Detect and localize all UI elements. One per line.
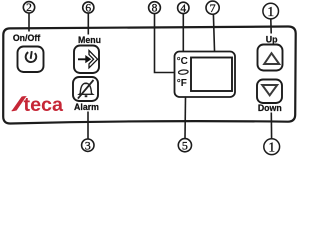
callout circle 4 (178, 2, 189, 15)
callout circle 1 top (Up) (263, 3, 279, 19)
svg-text:8: 8 (152, 3, 158, 15)
Menu button (74, 46, 99, 74)
callout circle 8 (149, 2, 161, 15)
bell icon with slash (78, 80, 94, 99)
callout circle 5 (178, 139, 191, 153)
svg-text:teca: teca (24, 95, 64, 116)
device front panel outline (3, 26, 296, 123)
svg-text:°C: °C (177, 56, 188, 67)
callout circle 2 (23, 2, 34, 15)
LCD display (191, 58, 232, 92)
svg-text:°F: °F (177, 78, 187, 89)
callout line 1 top (270, 19, 272, 34)
menu arrow icon (78, 51, 98, 68)
svg-text:3: 3 (85, 138, 91, 152)
callout circle 7 (206, 1, 219, 15)
svg-text:Up: Up (266, 34, 278, 44)
battery symbol (178, 70, 188, 75)
Down button (257, 80, 282, 104)
callout line 5 (184, 97, 187, 139)
svg-text:1: 1 (268, 140, 275, 155)
callout circle 6 (83, 2, 94, 15)
callout line 6 (87, 13, 89, 34)
up triangle (264, 53, 279, 64)
steca logo (11, 95, 63, 116)
power symbol (25, 50, 37, 62)
callout circle 1 bottom (Down) (264, 139, 280, 155)
svg-text:2: 2 (26, 2, 32, 14)
down triangle (262, 85, 277, 95)
svg-text:Menu: Menu (78, 35, 101, 45)
svg-text:Alarm: Alarm (74, 102, 99, 112)
On/Off button (18, 47, 44, 73)
svg-text:7: 7 (210, 1, 216, 15)
svg-text:6: 6 (85, 2, 91, 14)
callout line 4 (182, 14, 184, 55)
svg-text:Down: Down (258, 103, 282, 113)
svg-text:1: 1 (267, 4, 274, 19)
callout line 2 (28, 13, 30, 31)
svg-text:5: 5 (182, 139, 188, 153)
display bezel (175, 52, 236, 98)
callout line 3 (87, 112, 89, 140)
svg-text:On/Off: On/Off (13, 33, 40, 43)
callout circle 3 (82, 138, 94, 152)
Alarm button (73, 77, 98, 101)
Up button (258, 45, 283, 71)
svg-text:4: 4 (180, 3, 186, 15)
callout line 7 (into LCD) (213, 14, 215, 73)
callout line 8 (down then right to battery symbol) (155, 14, 175, 73)
callout line 1 bottom (270, 113, 272, 139)
